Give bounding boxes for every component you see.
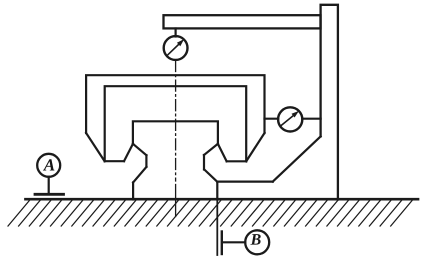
pedestal left foot bbox=[132, 183, 134, 200]
dial indicator U1 stem bbox=[175, 29, 177, 37]
datum B leader bbox=[223, 241, 245, 243]
workpiece outer left chamfer bbox=[86, 133, 105, 161]
workpiece right foot flat bbox=[227, 160, 247, 162]
pedestal left neck chamfer bbox=[133, 144, 147, 155]
dial indicator U1 arrowhead bbox=[177, 39, 184, 46]
stand column bbox=[321, 5, 338, 200]
datum A circle bbox=[37, 154, 60, 177]
pedestal left foot flare bbox=[133, 167, 146, 183]
pedestal right foot bbox=[216, 182, 218, 200]
workpiece outer right chamfer bbox=[246, 133, 264, 161]
workpiece left foot flat bbox=[105, 160, 124, 162]
centerline lower solid segment bbox=[175, 185, 177, 217]
workpiece left dovetail flank bbox=[124, 144, 133, 161]
workpiece right dovetail flank bbox=[218, 144, 227, 161]
datum B label bbox=[250, 234, 260, 245]
dial indicator U2 left link bbox=[265, 118, 279, 120]
datum B circle bbox=[245, 230, 269, 254]
dial indicator U1 needle bbox=[167, 43, 180, 56]
stand arm bbox=[164, 15, 321, 28]
pedestal right waist bbox=[203, 155, 205, 170]
dial indicator U2 body bbox=[278, 107, 302, 131]
workpiece inner profile bbox=[105, 86, 247, 161]
datum B extension line bbox=[216, 200, 218, 256]
pedestal left waist bbox=[145, 155, 147, 167]
pedestal top and sides bbox=[133, 121, 218, 144]
datum A base bar bbox=[35, 193, 64, 196]
workpiece outer profile (top + sides) bbox=[86, 75, 264, 133]
pedestal ledge bbox=[217, 181, 272, 183]
hatching bbox=[8, 200, 412, 226]
dial indicator U2 right link bbox=[302, 118, 320, 120]
dial indicator U2 arrowhead bbox=[292, 111, 300, 118]
pedestal riser 45deg bbox=[273, 136, 321, 181]
datum A stem bbox=[48, 177, 50, 194]
pedestal right neck chamfer bbox=[204, 144, 218, 155]
datum A label bbox=[43, 159, 55, 170]
pedestal right foot flare bbox=[204, 170, 217, 182]
datum B tick bar bbox=[221, 232, 223, 255]
dial indicator U1 body bbox=[164, 36, 188, 60]
dial indicator U2 needle bbox=[281, 115, 294, 126]
centerline (dash-dot) bbox=[175, 61, 177, 182]
surface plate ground line bbox=[26, 198, 419, 201]
